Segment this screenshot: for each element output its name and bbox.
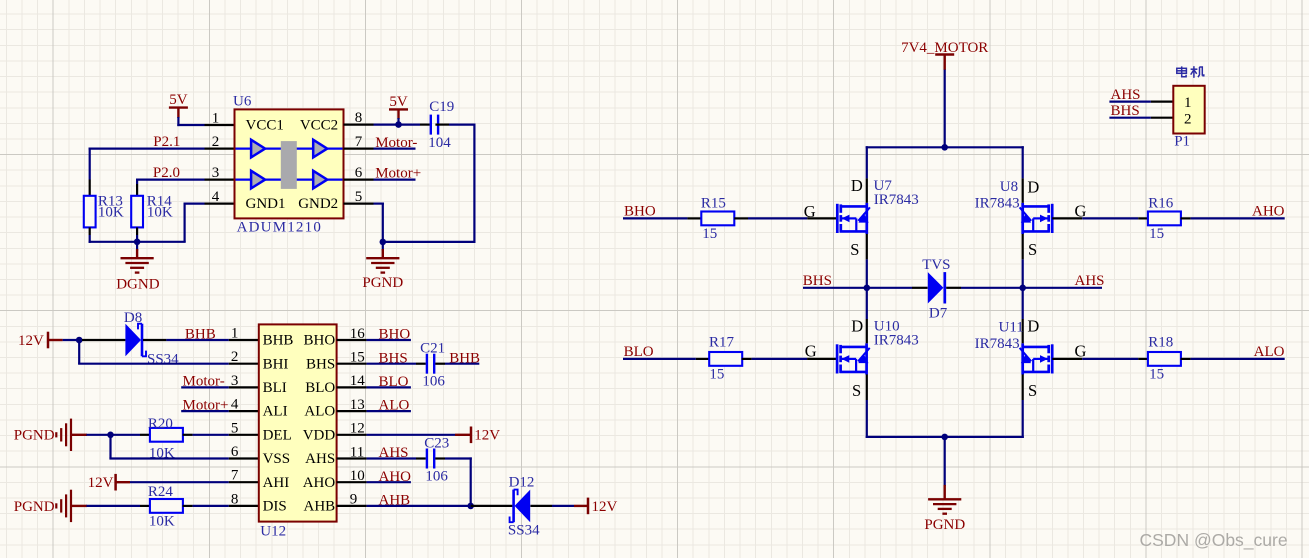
resistor R14 bbox=[131, 184, 173, 235]
svg-text:Motor+: Motor+ bbox=[183, 397, 229, 413]
resistor R24 bbox=[86, 484, 192, 529]
svg-text:G: G bbox=[1075, 201, 1087, 220]
svg-text:IR7843: IR7843 bbox=[874, 192, 919, 208]
svg-text:BHO: BHO bbox=[624, 203, 656, 219]
svg-text:ALO: ALO bbox=[304, 404, 335, 420]
svg-text:D12: D12 bbox=[509, 475, 535, 491]
svg-text:15: 15 bbox=[709, 366, 724, 382]
junction at PGND (U6) bbox=[380, 239, 387, 246]
resistor R18 bbox=[1138, 335, 1190, 383]
wire Motor- (U6) bbox=[374, 135, 418, 151]
wire 12V to D8 bbox=[48, 339, 82, 341]
svg-text:SS34: SS34 bbox=[508, 523, 540, 539]
IC U6 ADUM1210 bbox=[233, 94, 344, 236]
svg-text:VDD: VDD bbox=[303, 427, 336, 443]
svg-text:10K: 10K bbox=[149, 513, 175, 529]
wire BHS to C21 bbox=[367, 350, 426, 366]
svg-text:R18: R18 bbox=[1148, 335, 1173, 351]
junction at DGND bbox=[134, 239, 141, 246]
junction bottom rail bbox=[941, 434, 948, 441]
svg-text:BHS: BHS bbox=[306, 356, 335, 372]
wire P2.1 bbox=[89, 148, 205, 180]
svg-text:5V: 5V bbox=[169, 92, 188, 108]
svg-text:BLO: BLO bbox=[379, 374, 409, 390]
pin 16 U12 bbox=[337, 326, 367, 342]
wire BHO bbox=[623, 203, 687, 219]
diode D8 SS34 bbox=[82, 310, 179, 368]
wire BHO stub bbox=[367, 327, 411, 343]
transistor U8 IR7843 bbox=[975, 178, 1053, 260]
svg-text:BLO: BLO bbox=[305, 380, 335, 396]
wire BHB net / node BHB bbox=[166, 327, 228, 343]
svg-text:DIS: DIS bbox=[263, 499, 287, 515]
pin 4 U6 bbox=[205, 189, 235, 205]
svg-text:15: 15 bbox=[702, 226, 717, 242]
pin 1 P1 bbox=[1151, 100, 1173, 102]
svg-text:AHB: AHB bbox=[304, 499, 336, 515]
U6 buffer row1 output bbox=[313, 140, 327, 158]
svg-text:IR7843: IR7843 bbox=[975, 336, 1020, 352]
svg-text:12V: 12V bbox=[474, 428, 500, 444]
svg-text:4: 4 bbox=[212, 189, 220, 205]
svg-text:BLI: BLI bbox=[263, 380, 287, 396]
wire BLO bbox=[623, 344, 696, 360]
svg-text:GND2: GND2 bbox=[298, 196, 338, 212]
pin 2 U12 bbox=[229, 349, 259, 365]
svg-text:AHS: AHS bbox=[1075, 273, 1105, 289]
svg-text:VSS: VSS bbox=[263, 451, 291, 467]
node P2.1 bbox=[153, 134, 180, 150]
wire U11 gate to R18 bbox=[1052, 341, 1138, 360]
power symbol 5V (U6 pin8) bbox=[389, 94, 408, 119]
ground PGND (DEL row) bbox=[14, 419, 87, 451]
wire AHI net bbox=[130, 481, 229, 483]
svg-text:D8: D8 bbox=[124, 310, 142, 326]
pin 7 U12 bbox=[229, 468, 259, 484]
wire BHS to P1 bbox=[1109, 103, 1151, 119]
pin 4 U12 bbox=[229, 397, 259, 413]
svg-text:S: S bbox=[852, 381, 861, 400]
pin 1 U12 bbox=[229, 326, 259, 342]
svg-text:R24: R24 bbox=[148, 484, 174, 500]
wire U11 source to rail bbox=[1022, 400, 1024, 438]
svg-text:AHS: AHS bbox=[305, 451, 335, 467]
ground PGND (U6) bbox=[362, 242, 403, 291]
svg-text:PGND: PGND bbox=[362, 275, 403, 291]
IC U12 bbox=[259, 324, 337, 539]
svg-text:D: D bbox=[851, 317, 863, 336]
svg-text:15: 15 bbox=[1149, 366, 1164, 382]
svg-text:10K: 10K bbox=[98, 205, 124, 221]
svg-text:AHI: AHI bbox=[263, 475, 290, 491]
svg-text:4: 4 bbox=[231, 397, 239, 413]
transistor U11 IR7843 bbox=[975, 288, 1053, 400]
pin 10 U12 bbox=[337, 468, 367, 484]
wire GND2 net bbox=[374, 203, 384, 242]
svg-text:AHO: AHO bbox=[379, 469, 412, 485]
wire U8 gate to R16 bbox=[1052, 201, 1138, 220]
pin 15 U12 bbox=[337, 350, 367, 366]
svg-text:TVS: TVS bbox=[922, 257, 950, 273]
power symbol 12V (D8) bbox=[18, 332, 48, 349]
wire 7V4_MOTOR stem bbox=[944, 70, 946, 148]
wire AHB net bbox=[367, 493, 471, 509]
pin 11 U12 bbox=[337, 444, 367, 460]
ground PGND (bridge) bbox=[924, 437, 965, 533]
svg-text:P2.1: P2.1 bbox=[153, 134, 180, 150]
svg-text:AHS: AHS bbox=[1111, 87, 1141, 103]
pin 7 U6 bbox=[344, 134, 374, 150]
svg-text:8: 8 bbox=[231, 491, 239, 507]
svg-text:12: 12 bbox=[350, 421, 365, 437]
U6 buffer row2 output bbox=[313, 171, 327, 189]
svg-text:BHB: BHB bbox=[449, 350, 480, 366]
wire bottom rail bbox=[866, 436, 1024, 438]
svg-text:AHO: AHO bbox=[1252, 203, 1285, 219]
svg-text:106: 106 bbox=[425, 468, 448, 484]
capacitor C21 bbox=[420, 341, 445, 390]
svg-text:16: 16 bbox=[350, 326, 366, 342]
wire BHS mid bbox=[803, 273, 867, 289]
svg-text:6: 6 bbox=[355, 165, 363, 181]
wire Motor+ (U12) bbox=[181, 397, 229, 413]
svg-text:G: G bbox=[1075, 341, 1087, 360]
pin 5 U12 bbox=[193, 420, 259, 436]
wire 5V pin8 net bbox=[374, 118, 430, 125]
svg-text:6: 6 bbox=[231, 444, 239, 460]
wire U8 source to AHS bbox=[1022, 259, 1024, 289]
svg-text:AHO: AHO bbox=[303, 475, 336, 491]
wire ALO bbox=[1191, 344, 1285, 360]
pin 13 U12 bbox=[337, 397, 367, 413]
svg-text:11: 11 bbox=[350, 444, 364, 460]
svg-text:U11: U11 bbox=[999, 319, 1024, 335]
svg-text:G: G bbox=[804, 202, 816, 221]
pin 6 U12 bbox=[229, 444, 259, 460]
svg-text:5: 5 bbox=[231, 420, 239, 436]
wire BLO stub bbox=[367, 374, 411, 390]
svg-text:3: 3 bbox=[212, 165, 220, 181]
svg-text:8: 8 bbox=[355, 110, 363, 126]
wire top rail bbox=[866, 146, 1024, 178]
svg-text:CSDN @Obs_cure: CSDN @Obs_cure bbox=[1140, 530, 1288, 551]
svg-text:U8: U8 bbox=[1000, 179, 1018, 195]
diode D7 TVS bbox=[867, 257, 961, 322]
svg-text:7: 7 bbox=[355, 134, 363, 150]
svg-text:15: 15 bbox=[1149, 226, 1164, 242]
svg-text:C21: C21 bbox=[420, 341, 445, 357]
svg-text:R20: R20 bbox=[148, 416, 173, 432]
svg-text:U12: U12 bbox=[260, 524, 286, 540]
pin 1 U6 bbox=[205, 111, 235, 127]
svg-text:10: 10 bbox=[350, 468, 365, 484]
pin 5 U6 bbox=[344, 189, 374, 205]
svg-text:2: 2 bbox=[231, 349, 239, 365]
junction top rail bbox=[941, 144, 948, 151]
svg-text:DGND: DGND bbox=[116, 277, 159, 293]
pin 14 U12 bbox=[337, 373, 367, 389]
wire AHO bbox=[1191, 203, 1285, 219]
svg-text:VCC1: VCC1 bbox=[246, 118, 284, 134]
junction 12V/BHI bbox=[76, 337, 83, 344]
power symbol 12V (AHI) bbox=[88, 474, 130, 491]
wire PGND to R20 bbox=[86, 434, 140, 436]
wire GND1 net bbox=[89, 203, 205, 243]
pin 12 U12 bbox=[337, 421, 367, 437]
transistor U10 IR7843 bbox=[837, 288, 919, 400]
wire U10 source to rail bbox=[866, 400, 868, 438]
svg-text:PGND: PGND bbox=[14, 499, 55, 515]
wire BHI net bbox=[78, 339, 229, 364]
svg-text:IR7843: IR7843 bbox=[874, 333, 919, 349]
svg-text:5: 5 bbox=[355, 189, 363, 205]
resistor R17 bbox=[696, 335, 752, 383]
wire AHO stub bbox=[367, 469, 412, 485]
svg-text:P1: P1 bbox=[1174, 133, 1190, 149]
svg-text:BHB: BHB bbox=[185, 327, 216, 343]
wire Motor- (U12) bbox=[181, 374, 229, 390]
svg-text:106: 106 bbox=[422, 374, 445, 390]
U6 isolation barrier bbox=[281, 141, 297, 189]
resistor R13 bbox=[84, 180, 124, 236]
wire Motor+ (U6) bbox=[374, 166, 422, 182]
pin 8 U12 bbox=[193, 491, 259, 507]
svg-text:2: 2 bbox=[212, 134, 220, 150]
svg-text:Motor-: Motor- bbox=[183, 374, 225, 390]
svg-text:R17: R17 bbox=[709, 335, 735, 351]
svg-text:G: G bbox=[805, 341, 817, 360]
pin 6 U6 bbox=[344, 165, 374, 181]
power symbol 5V (U6 pin1) bbox=[169, 92, 188, 118]
svg-text:BHI: BHI bbox=[263, 356, 289, 372]
svg-text:12V: 12V bbox=[18, 333, 44, 349]
svg-text:ALO: ALO bbox=[1254, 344, 1285, 360]
junction pin8/5V bbox=[395, 121, 402, 128]
wire ALO stub bbox=[367, 398, 411, 414]
svg-text:PGND: PGND bbox=[924, 517, 965, 533]
svg-text:10K: 10K bbox=[147, 205, 173, 221]
U6 buffer row1 input bbox=[251, 140, 265, 158]
svg-text:AHB: AHB bbox=[379, 493, 411, 509]
wire U7 source to BHS bbox=[866, 259, 868, 289]
svg-text:5V: 5V bbox=[389, 94, 408, 110]
pin 8 U6 bbox=[344, 110, 374, 126]
wire C23 to AHB bbox=[435, 457, 472, 506]
U6 buffer row2 input bbox=[251, 171, 265, 189]
wire AHS to P1 bbox=[1109, 87, 1151, 103]
junction AHS bbox=[1019, 285, 1026, 292]
svg-text:U6: U6 bbox=[233, 94, 252, 110]
capacitor C23 bbox=[424, 436, 449, 485]
capacitor C19 bbox=[428, 99, 454, 151]
svg-text:13: 13 bbox=[350, 397, 365, 413]
svg-text:3: 3 bbox=[231, 373, 239, 389]
wire AHS to C23 bbox=[367, 445, 426, 461]
svg-text:DEL: DEL bbox=[263, 427, 292, 443]
wire VSS net bbox=[109, 434, 228, 459]
junction AHB/C23 bbox=[467, 503, 474, 510]
svg-text:104: 104 bbox=[428, 135, 451, 151]
pin 9 U12 bbox=[337, 492, 367, 508]
wire AHS mid bbox=[961, 273, 1105, 289]
svg-text:D: D bbox=[1027, 178, 1039, 197]
svg-text:VCC2: VCC2 bbox=[300, 118, 338, 134]
svg-text:BHB: BHB bbox=[263, 333, 294, 349]
svg-text:1: 1 bbox=[212, 111, 220, 127]
svg-text:BHO: BHO bbox=[304, 333, 336, 349]
U6 channel lines bbox=[236, 149, 343, 180]
svg-text:2: 2 bbox=[1184, 111, 1192, 127]
svg-text:1: 1 bbox=[231, 326, 239, 342]
svg-text:D: D bbox=[851, 176, 863, 195]
diode D12 SS34 bbox=[471, 475, 552, 539]
ground DGND bbox=[116, 242, 159, 293]
svg-text:Motor-: Motor- bbox=[375, 135, 417, 151]
svg-text:D: D bbox=[1027, 317, 1039, 336]
svg-text:9: 9 bbox=[350, 492, 358, 508]
svg-text:12V: 12V bbox=[592, 499, 618, 515]
junction DEL/VSS bbox=[107, 432, 114, 439]
resistor R15 bbox=[687, 196, 748, 242]
svg-text:Motor+: Motor+ bbox=[375, 166, 421, 182]
wire P2.0 bbox=[136, 179, 204, 185]
svg-text:BHO: BHO bbox=[379, 327, 411, 343]
svg-text:S: S bbox=[1028, 240, 1037, 259]
svg-text:BHS: BHS bbox=[379, 350, 408, 366]
transistor U7 IR7843 bbox=[837, 176, 919, 259]
svg-text:BLO: BLO bbox=[624, 344, 654, 360]
svg-text:D7: D7 bbox=[929, 305, 948, 321]
connector P1 (motor) bbox=[1173, 86, 1204, 150]
svg-text:S: S bbox=[850, 240, 859, 259]
svg-text:PGND: PGND bbox=[14, 428, 55, 444]
wire C19 to PGND bbox=[383, 124, 476, 244]
pin 3 U6 bbox=[205, 165, 235, 181]
svg-text:C23: C23 bbox=[424, 436, 449, 452]
wire BHB stub (C21) bbox=[435, 350, 480, 366]
svg-text:ADUM1210: ADUM1210 bbox=[237, 219, 322, 235]
power symbol 12V (VDD) bbox=[367, 427, 501, 444]
pin 2 P1 bbox=[1151, 117, 1173, 119]
svg-text:BHS: BHS bbox=[1111, 103, 1140, 119]
node P2.0 bbox=[153, 165, 180, 181]
svg-text:7: 7 bbox=[231, 468, 239, 484]
svg-text:SS34: SS34 bbox=[147, 352, 179, 368]
ground PGND (DIS row) bbox=[14, 490, 87, 522]
pin 3 U12 bbox=[229, 373, 259, 389]
svg-text:1: 1 bbox=[1184, 95, 1192, 111]
svg-text:IR7843: IR7843 bbox=[975, 195, 1020, 211]
wire 5V to U6 pin1 bbox=[177, 117, 204, 126]
svg-text:AHS: AHS bbox=[379, 445, 409, 461]
svg-text:ALO: ALO bbox=[379, 398, 410, 414]
wire R17 to U10 gate bbox=[752, 341, 838, 360]
pin 2 U6 bbox=[205, 134, 235, 150]
wire R15 to U7 gate bbox=[748, 202, 837, 221]
U12 pin names bbox=[263, 333, 336, 515]
junction BHS bbox=[864, 285, 871, 292]
svg-text:R16: R16 bbox=[1148, 196, 1174, 212]
power symbol 12V (D12) bbox=[552, 498, 618, 515]
svg-text:BHS: BHS bbox=[803, 273, 832, 289]
resistor R20 bbox=[140, 416, 193, 461]
svg-text:GND1: GND1 bbox=[246, 196, 286, 212]
label dianji (motor) bbox=[1177, 66, 1204, 78]
svg-text:14: 14 bbox=[350, 373, 366, 389]
svg-text:15: 15 bbox=[350, 350, 365, 366]
svg-text:R15: R15 bbox=[701, 196, 726, 212]
svg-text:ALI: ALI bbox=[263, 404, 288, 420]
svg-text:S: S bbox=[1028, 381, 1037, 400]
power symbol 7V4_MOTOR bbox=[901, 40, 988, 70]
svg-text:12V: 12V bbox=[88, 475, 114, 491]
svg-text:C19: C19 bbox=[429, 99, 454, 115]
resistor R16 bbox=[1138, 196, 1190, 242]
